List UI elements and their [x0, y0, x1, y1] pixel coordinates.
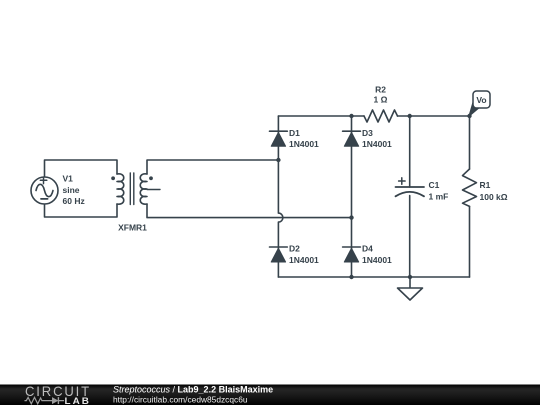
svg-text:Streptococcus / Lab9_2.2 Blais: Streptococcus / Lab9_2.2 BlaisMaxime — [113, 385, 273, 395]
svg-text:1 Ω: 1 Ω — [374, 95, 388, 105]
svg-text:LAB: LAB — [65, 396, 92, 405]
wire secondary top — [147, 160, 278, 174]
wire secondary bottom — [147, 204, 352, 218]
resistor R1 — [463, 116, 508, 277]
ground — [398, 277, 423, 300]
svg-text:R1: R1 — [480, 180, 491, 190]
svg-text:sine: sine — [63, 185, 80, 195]
wire top rail right of R2 — [398, 115, 470, 117]
wire primary top (V1 top to XFMR1 primary top) — [45, 160, 118, 177]
svg-text:60 Hz: 60 Hz — [63, 196, 85, 206]
svg-text:1N4001: 1N4001 — [362, 255, 392, 265]
CircuitLab logo — [25, 383, 92, 405]
svg-text:C1: C1 — [429, 180, 440, 190]
svg-text:D3: D3 — [362, 128, 373, 138]
transformer XFMR1 — [111, 173, 160, 233]
svg-text:1N4001: 1N4001 — [289, 139, 319, 149]
svg-text:V1: V1 — [63, 174, 74, 184]
voltage source V1 — [31, 174, 85, 207]
diode D3 — [343, 128, 392, 149]
resistor R2 — [364, 84, 398, 122]
junction node (secondary bottom / bridge right) — [349, 215, 353, 219]
junction node (secondary top / bridge left) — [276, 158, 280, 162]
svg-text:1N4001: 1N4001 — [289, 255, 319, 265]
diode D4 — [343, 244, 392, 265]
footer bar — [0, 385, 540, 405]
junction node (bottom rail / ground) — [408, 275, 412, 279]
junction node (bottom rail / D4) — [349, 275, 353, 279]
junction node (top rail / D3) — [349, 114, 353, 118]
svg-text:Vo: Vo — [476, 95, 486, 105]
wire bottom rail — [278, 276, 469, 278]
svg-text:XFMR1: XFMR1 — [118, 223, 147, 233]
diode D2 — [270, 244, 320, 265]
probe Vo — [469, 91, 490, 117]
svg-text:D1: D1 — [289, 128, 300, 138]
junction node Vo (top rail / R1 / probe) — [467, 114, 471, 118]
wire bridge top rail — [278, 115, 364, 117]
svg-text:R2: R2 — [375, 84, 386, 94]
svg-text:1N4001: 1N4001 — [362, 139, 392, 149]
svg-text:D2: D2 — [289, 244, 300, 254]
svg-text:http://circuitlab.com/cedw85dz: http://circuitlab.com/cedw85dzcqc6u — [113, 395, 248, 405]
junction node (top rail / C1) — [408, 114, 412, 118]
wire bridge left vertical with crossover hop — [278, 116, 283, 277]
svg-text:1 mF: 1 mF — [429, 192, 449, 202]
capacitor C1 — [396, 116, 449, 277]
svg-text:D4: D4 — [362, 244, 373, 254]
diode D1 — [270, 128, 320, 149]
wire primary bottom (V1 bottom to XFMR1 primary bottom) — [45, 204, 118, 217]
svg-text:100 kΩ: 100 kΩ — [480, 192, 508, 202]
wire bridge right vertical — [351, 116, 353, 277]
